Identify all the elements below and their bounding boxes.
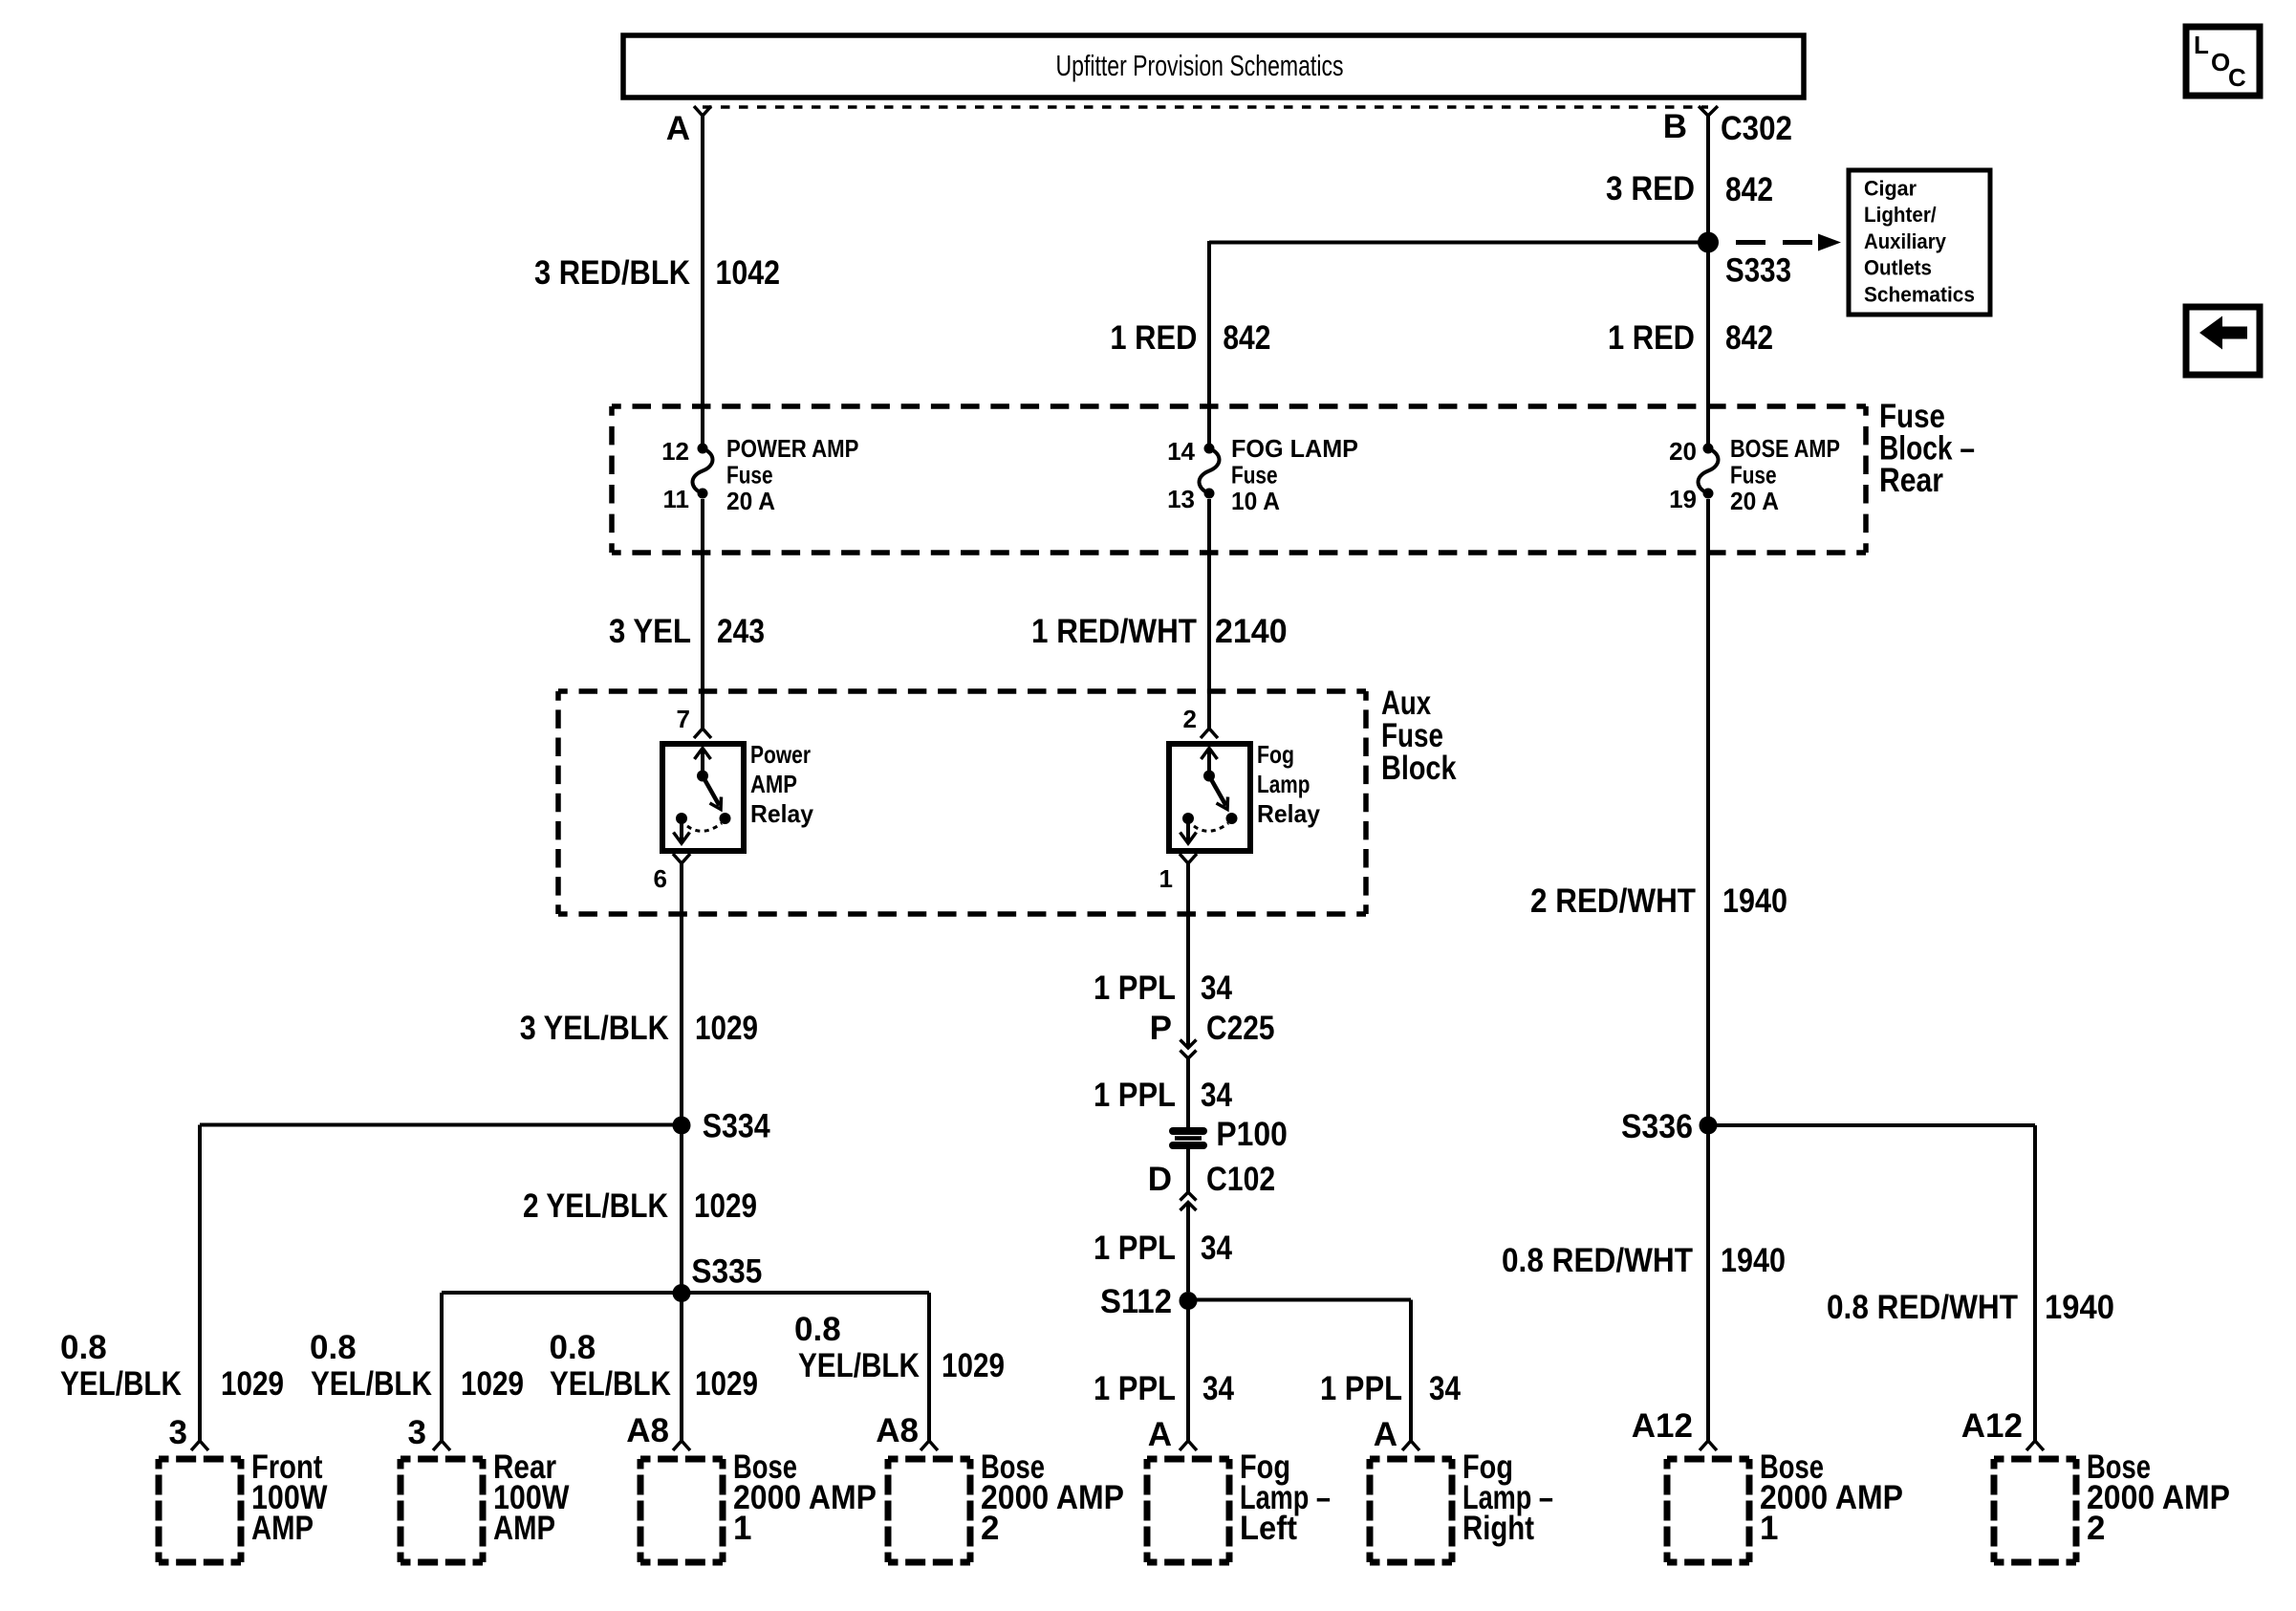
relay Power AMP n.o. contact dot — [720, 813, 731, 824]
svg-text:Right: Right — [1462, 1510, 1534, 1547]
splice S334 — [673, 1117, 691, 1135]
svg-text:Fuse: Fuse — [726, 461, 773, 490]
connector chevron at wire end — [673, 1441, 690, 1450]
svg-text:3 YEL/BLK: 3 YEL/BLK — [520, 1010, 669, 1047]
svg-text:YEL/BLK: YEL/BLK — [311, 1365, 432, 1403]
wire bose amp 2 drop (0.8 RED/WHT 1940) — [2033, 1125, 2037, 1441]
svg-text:S336: S336 — [1621, 1108, 1693, 1145]
svg-text:2000 AMP: 2000 AMP — [733, 1479, 877, 1516]
svg-text:A12: A12 — [1632, 1407, 1693, 1445]
wire fog vertical segment 5 — [1186, 1148, 1190, 1192]
svg-text:Fuse: Fuse — [1730, 461, 1777, 490]
connector Fog Lamp - Left (dashed outline) — [1147, 1459, 1229, 1562]
svg-text:243: 243 — [717, 613, 765, 650]
svg-text:1 RED/WHT: 1 RED/WHT — [1031, 613, 1197, 650]
relay Fog Lamp n.o. contact dot — [1226, 813, 1238, 824]
svg-text:1029: 1029 — [694, 1187, 757, 1225]
svg-text:11: 11 — [663, 485, 690, 513]
svg-text:2140: 2140 — [1215, 613, 1288, 650]
wire left vertical segment 4 (2 YEL/BLK 1029) — [680, 1134, 683, 1441]
svg-text:34: 34 — [1429, 1370, 1461, 1407]
wire middle vertical segment 1 (1 RED 842) — [1207, 241, 1211, 446]
wire bose amp 1 drop (0.8 RED/WHT 1940) — [1706, 1134, 1710, 1441]
in-line connector C102 (double chevron) — [1180, 1192, 1197, 1210]
connector chevron at wire end — [191, 1441, 208, 1450]
svg-text:34: 34 — [1201, 1077, 1232, 1114]
svg-text:Relay: Relay — [1257, 799, 1321, 828]
wire front 100W amp drop (0.8 YEL/BLK) — [198, 1125, 202, 1442]
wire from S333 to fog lamp fuse (horizontal) — [1209, 241, 1708, 245]
svg-text:S335: S335 — [691, 1253, 762, 1291]
svg-text:2000 AMP: 2000 AMP — [1760, 1479, 1903, 1516]
svg-text:Power: Power — [750, 740, 811, 769]
svg-text:0.8: 0.8 — [550, 1329, 596, 1366]
svg-text:12: 12 — [661, 437, 689, 466]
wire B vertical segment 1 (3 RED 842) — [1706, 115, 1710, 446]
svg-text:34: 34 — [1201, 969, 1232, 1007]
wire fog vertical segment 4 (1 PPL 34) — [1186, 1058, 1190, 1131]
svg-text:Upfitter Provision Schematics: Upfitter Provision Schematics — [1056, 49, 1344, 82]
svg-text:10 A: 10 A — [1231, 487, 1280, 515]
relay Fog Lamp armature up arrow — [1207, 750, 1211, 776]
relay Fog Lamp common down arrow — [1186, 818, 1190, 841]
relay Power AMP top connector (pin 7) — [694, 729, 711, 738]
back arrow box — [2186, 307, 2260, 375]
relay Power AMP dashed throw arc — [687, 823, 722, 831]
aux fuse block (dashed outline) — [558, 691, 1366, 914]
svg-text:3 RED: 3 RED — [1606, 170, 1695, 207]
relay Fog Lamp moving contact arrow — [1209, 776, 1226, 806]
svg-text:1940: 1940 — [2045, 1289, 2114, 1326]
wire S335 branch (horizontal) — [442, 1291, 929, 1295]
svg-text:S334: S334 — [703, 1108, 770, 1145]
connector chevron at wire end — [1700, 1441, 1717, 1450]
svg-text:6: 6 — [654, 864, 667, 893]
svg-text:19: 19 — [1669, 485, 1697, 513]
title box: Upfitter Provision Schematics — [623, 35, 1804, 98]
relay Fog Lamp top connector (pin 2) — [1201, 729, 1218, 738]
svg-text:A8: A8 — [876, 1412, 919, 1449]
label 0.8 YEL/BLK 1029 (branch 1) — [60, 1329, 284, 1403]
relay Fog Lamp box — [1169, 744, 1250, 851]
wire fog vertical segment 3 (1 PPL 34) — [1186, 863, 1190, 1048]
svg-text:C: C — [2228, 63, 2246, 92]
grommet P100 — [1173, 1131, 1203, 1145]
svg-text:AMP: AMP — [750, 770, 797, 798]
svg-text:1029: 1029 — [942, 1347, 1005, 1384]
relay Power AMP common down arrow — [680, 818, 683, 841]
svg-text:842: 842 — [1725, 319, 1773, 357]
svg-text:1 PPL: 1 PPL — [1320, 1370, 1402, 1407]
svg-text:Auxiliary: Auxiliary — [1864, 229, 1947, 253]
svg-text:842: 842 — [1725, 171, 1773, 208]
wire A vertical segment 1 (3 RED/BLK 1042) — [701, 115, 704, 446]
svg-text:7: 7 — [677, 705, 690, 733]
connector Rear 100W AMP (dashed outline) — [401, 1459, 483, 1562]
relay Fog Lamp pivot contact dot — [1203, 771, 1215, 782]
svg-text:0.8: 0.8 — [794, 1311, 841, 1348]
svg-text:Fuse: Fuse — [1231, 461, 1278, 490]
svg-text:1 RED: 1 RED — [1110, 319, 1197, 357]
wire bose 2000 amp 1 drop (0.8 YEL/BLK) — [680, 1294, 683, 1442]
svg-text:P: P — [1150, 1010, 1172, 1047]
svg-text:1: 1 — [733, 1510, 751, 1547]
svg-text:BOSE AMP: BOSE AMP — [1730, 434, 1840, 463]
svg-text:1940: 1940 — [1721, 1242, 1786, 1279]
wire middle vertical segment 2 (1 RED/WHT 2140) — [1207, 499, 1211, 729]
wire S334 branch to front amp (horizontal) — [200, 1123, 682, 1127]
relay Power AMP bottom connector (pin 6) — [673, 854, 690, 863]
svg-text:2 RED/WHT: 2 RED/WHT — [1530, 882, 1696, 920]
connector chevron at wire end — [1180, 1441, 1197, 1450]
splice S333 — [1698, 232, 1719, 253]
svg-text:A: A — [1374, 1416, 1397, 1453]
svg-text:1029: 1029 — [695, 1010, 758, 1047]
svg-text:YEL/BLK: YEL/BLK — [798, 1347, 920, 1384]
splice S112 — [1180, 1292, 1198, 1310]
svg-text:20 A: 20 A — [1730, 487, 1779, 515]
svg-text:A12: A12 — [1961, 1407, 2023, 1445]
svg-text:1940: 1940 — [1722, 882, 1787, 920]
svg-text:3: 3 — [408, 1414, 426, 1451]
label 0.8 YEL/BLK 1029 (branch 3) — [550, 1329, 759, 1403]
svg-text:S112: S112 — [1100, 1283, 1172, 1320]
svg-text:Rear: Rear — [1879, 462, 1943, 499]
svg-text:Relay: Relay — [750, 799, 814, 828]
svg-text:1029: 1029 — [461, 1365, 524, 1403]
svg-text:Cigar: Cigar — [1864, 177, 1917, 201]
dashed reference arrow to cigar lighter schematics — [1736, 234, 1841, 251]
wire fog vertical segment 6 (1 PPL 34) — [1186, 1203, 1190, 1293]
svg-text:0.8: 0.8 — [310, 1329, 357, 1366]
connector chevron at wire end — [921, 1441, 938, 1450]
svg-text:1029: 1029 — [221, 1365, 284, 1403]
svg-text:3 YEL: 3 YEL — [609, 613, 691, 650]
svg-text:Schematics: Schematics — [1864, 282, 1975, 306]
svg-text:1029: 1029 — [695, 1365, 758, 1403]
svg-text:1 PPL: 1 PPL — [1094, 1370, 1176, 1407]
relay Power AMP common contact dot — [676, 813, 687, 824]
connector Bose 2000 AMP 2 (right) (dashed outline) — [1994, 1459, 2076, 1562]
svg-text:2: 2 — [1183, 705, 1197, 733]
svg-text:YEL/BLK: YEL/BLK — [60, 1365, 182, 1403]
svg-text:FOG LAMP: FOG LAMP — [1231, 434, 1358, 463]
connector chevron at wire end — [433, 1441, 450, 1450]
wire bose 2000 amp 2 drop (0.8 YEL/BLK) — [927, 1293, 931, 1441]
wire fog lamp right drop (1 PPL 34) — [1409, 1300, 1413, 1442]
node A branch connector — [694, 106, 711, 116]
svg-text:0.8 RED/WHT: 0.8 RED/WHT — [1502, 1242, 1693, 1279]
LOC page symbol box — [2186, 27, 2260, 96]
wire rear 100W amp drop (0.8 YEL/BLK) — [440, 1293, 444, 1441]
svg-text:C102: C102 — [1206, 1161, 1275, 1198]
svg-text:P100: P100 — [1216, 1116, 1288, 1153]
svg-text:C302: C302 — [1721, 110, 1792, 147]
wire fog lamp left drop (1 PPL 34) — [1186, 1301, 1190, 1442]
svg-text:A8: A8 — [626, 1412, 669, 1449]
svg-text:AMP: AMP — [493, 1510, 555, 1547]
in-line connector C225 (double chevron) — [1180, 1040, 1197, 1059]
svg-text:D: D — [1148, 1161, 1172, 1198]
svg-text:B: B — [1663, 108, 1687, 145]
relay Power AMP moving contact arrow — [703, 776, 720, 806]
svg-text:842: 842 — [1223, 319, 1270, 357]
wire B vertical segment 2 (2 RED/WHT 1940) — [1706, 499, 1710, 1125]
relay Fog Lamp dashed throw arc — [1194, 823, 1228, 831]
splice S335 — [673, 1284, 691, 1302]
svg-text:20: 20 — [1669, 437, 1697, 466]
fuse POWER AMP 20A — [693, 444, 713, 499]
svg-text:0.8 RED/WHT: 0.8 RED/WHT — [1827, 1289, 2018, 1326]
svg-text:0.8: 0.8 — [60, 1329, 107, 1366]
splice S336 — [1700, 1117, 1718, 1135]
label 0.8 YEL/BLK 1029 (branch 4) — [794, 1311, 1005, 1384]
fuse FOG LAMP 10A — [1200, 444, 1220, 499]
relay Power AMP armature up arrow — [701, 750, 704, 776]
connector chevron at wire end — [1402, 1441, 1419, 1450]
connector chevron at wire end — [2026, 1441, 2044, 1450]
svg-text:YEL/BLK: YEL/BLK — [550, 1365, 671, 1403]
relay Fog Lamp common contact dot — [1182, 813, 1194, 824]
svg-text:14: 14 — [1167, 437, 1195, 466]
svg-text:Lamp: Lamp — [1257, 770, 1310, 798]
svg-text:2: 2 — [2087, 1510, 2105, 1547]
svg-text:2 YEL/BLK: 2 YEL/BLK — [523, 1187, 668, 1225]
svg-text:POWER AMP: POWER AMP — [726, 434, 858, 463]
connector Bose 2000 AMP 1 (dashed outline) — [640, 1459, 723, 1562]
svg-text:13: 13 — [1167, 485, 1195, 513]
svg-text:3 RED/BLK: 3 RED/BLK — [534, 254, 690, 292]
svg-text:2000 AMP: 2000 AMP — [2087, 1479, 2230, 1516]
svg-text:C225: C225 — [1206, 1010, 1275, 1047]
svg-text:1 PPL: 1 PPL — [1094, 1077, 1176, 1114]
svg-text:1 PPL: 1 PPL — [1094, 969, 1176, 1007]
svg-text:3: 3 — [169, 1414, 187, 1451]
relay Power AMP box — [662, 744, 744, 851]
wire S336 branch to bose amp 2 (horizontal) — [1708, 1123, 2035, 1127]
svg-text:1: 1 — [1760, 1510, 1778, 1547]
svg-text:A: A — [1148, 1416, 1172, 1453]
svg-text:A: A — [666, 110, 690, 147]
relay Power AMP pivot contact dot — [697, 771, 708, 782]
svg-text:S333: S333 — [1725, 252, 1791, 290]
svg-text:Outlets: Outlets — [1864, 256, 1932, 280]
svg-text:34: 34 — [1201, 1230, 1232, 1267]
connector Front 100W AMP (dashed outline) — [159, 1459, 241, 1562]
svg-text:34: 34 — [1202, 1370, 1234, 1407]
label 0.8 YEL/BLK 1029 (branch 2) — [310, 1329, 524, 1403]
fuse block - rear (dashed outline) — [612, 406, 1866, 553]
cigar lighter / auxiliary outlets schematics reference box — [1849, 170, 1990, 315]
svg-text:1042: 1042 — [716, 254, 781, 292]
svg-text:Block: Block — [1381, 750, 1457, 787]
connector Bose 2000 AMP 2 (dashed outline) — [888, 1459, 970, 1562]
connector Bose 2000 AMP 1 (right) (dashed outline) — [1667, 1459, 1749, 1562]
svg-text:2000 AMP: 2000 AMP — [981, 1479, 1124, 1516]
svg-text:1: 1 — [1159, 864, 1173, 893]
fuse BOSE AMP 20A — [1699, 444, 1719, 499]
svg-text:1 PPL: 1 PPL — [1094, 1230, 1176, 1267]
svg-text:L: L — [2194, 31, 2209, 59]
svg-text:Lighter/: Lighter/ — [1864, 203, 1937, 227]
wire left vertical segment 3 (3 YEL/BLK 1029) — [680, 863, 683, 1117]
svg-text:Left: Left — [1240, 1510, 1297, 1547]
wire A vertical segment 2 (3 YEL 243) — [701, 499, 704, 729]
wire S112 branch to fog lamp right (horizontal) — [1188, 1298, 1411, 1302]
dashed bus line from title box — [703, 105, 1708, 109]
connector Fog Lamp - Right (dashed outline) — [1370, 1459, 1452, 1562]
svg-text:20 A: 20 A — [726, 487, 775, 515]
svg-text:Fog: Fog — [1257, 740, 1294, 769]
svg-text:2: 2 — [981, 1510, 999, 1547]
relay Fog Lamp bottom connector (pin 1) — [1180, 854, 1197, 863]
node B branch connector — [1699, 106, 1718, 116]
svg-text:AMP: AMP — [251, 1510, 314, 1547]
svg-text:1 RED: 1 RED — [1608, 319, 1695, 357]
